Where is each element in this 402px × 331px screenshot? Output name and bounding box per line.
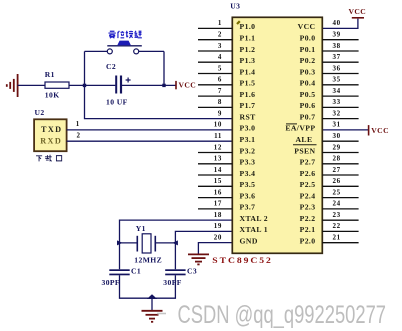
- svg-text:P1.2: P1.2: [240, 45, 256, 54]
- svg-text:XTAL 2: XTAL 2: [240, 214, 269, 223]
- svg-text:U3: U3: [230, 2, 240, 11]
- svg-text:STC89C52: STC89C52: [212, 256, 273, 265]
- node crystal left junction: [117, 240, 123, 245]
- svg-text:P0.2: P0.2: [300, 56, 316, 65]
- U3 pin 14 (P3.4): [198, 166, 255, 178]
- svg-text:VCC: VCC: [298, 22, 316, 31]
- svg-text:30PF: 30PF: [163, 278, 181, 287]
- wire button right vertical: [163, 51, 165, 85]
- U3 pin 8 (P1.7): [198, 98, 255, 110]
- wire ground stem: [151, 298, 153, 310]
- svg-text:13: 13: [214, 155, 222, 163]
- wire RST net to pin 9: [85, 85, 233, 118]
- svg-text:30PF: 30PF: [102, 278, 120, 287]
- U3 pin 20 (GND): [214, 234, 258, 246]
- U3 pin 37 (P0.2): [300, 53, 359, 65]
- svg-text:11: 11: [214, 132, 222, 140]
- svg-text:29: 29: [333, 143, 341, 151]
- svg-text:C2: C2: [106, 62, 116, 71]
- svg-text:P1.7: P1.7: [240, 101, 256, 110]
- svg-text:8: 8: [218, 98, 222, 106]
- svg-text:34: 34: [333, 87, 341, 95]
- U3 pin 39 (P0.0): [300, 31, 359, 43]
- svg-text:32: 32: [333, 109, 341, 117]
- node crystal right junction: [172, 240, 178, 245]
- svg-text:12MHZ: 12MHZ: [134, 256, 162, 265]
- power VCC tick at reset rail: [176, 81, 196, 90]
- svg-text:20: 20: [214, 234, 222, 242]
- svg-text:P3.4: P3.4: [240, 169, 256, 178]
- U3 pin 31 (EA/VPP): [285, 121, 340, 133]
- svg-text:10: 10: [214, 121, 222, 129]
- capacitor C3: [163, 267, 197, 288]
- node B: [162, 84, 165, 87]
- ground at pin 20: [188, 254, 209, 264]
- svg-text:15: 15: [214, 177, 222, 185]
- svg-text:19: 19: [214, 222, 222, 230]
- capacitor C1: [102, 267, 142, 288]
- svg-text:P2.3: P2.3: [300, 203, 316, 212]
- svg-text:35: 35: [333, 76, 341, 84]
- svg-text:28: 28: [333, 155, 341, 163]
- U3 pin 23 (P2.2): [300, 211, 359, 223]
- node A RST junction: [83, 84, 86, 87]
- U3 pin 10 (P3.0): [214, 121, 256, 133]
- svg-text:P3.7: P3.7: [240, 203, 256, 212]
- svg-text:C3: C3: [187, 267, 197, 276]
- svg-text:10K: 10K: [45, 91, 60, 100]
- svg-text:P1.6: P1.6: [240, 90, 256, 99]
- svg-text:18: 18: [214, 211, 222, 219]
- svg-text:P0.1: P0.1: [300, 45, 316, 54]
- power VCC at pin 31: [322, 125, 389, 135]
- svg-text:23: 23: [333, 211, 341, 219]
- svg-text:12: 12: [214, 143, 222, 151]
- svg-text:EA/VPP: EA/VPP: [285, 124, 315, 133]
- svg-text:P3.6: P3.6: [240, 191, 256, 200]
- U3 pin 16 (P3.6): [198, 188, 255, 200]
- svg-text:P0.5: P0.5: [300, 90, 316, 99]
- U3 pin 28 (P2.7): [300, 155, 359, 167]
- svg-text:33: 33: [333, 98, 341, 106]
- U3 pin 38 (P0.1): [300, 42, 359, 54]
- svg-text:27: 27: [333, 166, 341, 174]
- capacitor C2: [106, 62, 131, 107]
- U3 pin 27 (P2.6): [300, 166, 359, 178]
- U3 pin 33 (P0.6): [300, 98, 359, 110]
- resistor R1: [45, 70, 69, 100]
- svg-text:40: 40: [333, 19, 341, 27]
- svg-text:1: 1: [218, 19, 222, 27]
- U3 pin 22 (P2.1): [300, 222, 359, 234]
- U3 pin 40 (VCC): [298, 19, 341, 31]
- svg-text:PSEN: PSEN: [294, 146, 315, 155]
- svg-text:31: 31: [333, 121, 341, 129]
- U3 pin 36 (P0.3): [300, 64, 359, 76]
- svg-text:ALE: ALE: [295, 135, 312, 144]
- U3 pin 30 (ALE): [295, 132, 358, 144]
- svg-text:P3.5: P3.5: [240, 180, 256, 189]
- U3 pin 25 (P2.4): [300, 188, 359, 200]
- ground signal ground at crystal: [142, 311, 163, 322]
- svg-text:17: 17: [214, 200, 222, 208]
- svg-text:1: 1: [76, 120, 80, 128]
- wire C1 bottom: [120, 275, 176, 298]
- U3 pin 26 (P2.5): [300, 177, 359, 189]
- svg-text:P2.1: P2.1: [300, 225, 316, 234]
- svg-text:36: 36: [333, 64, 341, 72]
- svg-text:P1.1: P1.1: [240, 34, 256, 43]
- svg-text:37: 37: [333, 53, 341, 61]
- svg-text:22: 22: [333, 222, 341, 230]
- U3 pin 2 (P1.1): [198, 31, 255, 43]
- U3 pin 1 (P1.0): [198, 19, 255, 31]
- ground power-ground at R1: [7, 74, 18, 97]
- svg-text:30: 30: [333, 132, 341, 140]
- U3 pin 6 (P1.5): [198, 76, 255, 88]
- watermark CSDN: [157, 301, 386, 329]
- svg-text:3: 3: [218, 42, 222, 50]
- svg-text:U2: U2: [35, 108, 45, 117]
- svg-text:39: 39: [333, 31, 341, 39]
- svg-text:P3.2: P3.2: [240, 146, 256, 155]
- U3 pin 21 (P2.0): [300, 234, 359, 246]
- U3 pin 4 (P1.3): [198, 53, 255, 65]
- U3 pin 19 (XTAL1): [214, 222, 268, 234]
- wire R1 to node A: [69, 84, 115, 86]
- svg-text:P1.4: P1.4: [240, 67, 256, 76]
- wire ground to R1: [18, 84, 45, 86]
- svg-text:P2.4: P2.4: [300, 191, 316, 200]
- svg-text:RXD: RXD: [40, 136, 62, 145]
- svg-text:C1: C1: [131, 267, 141, 276]
- U3 pin 18 (XTAL2): [214, 211, 268, 223]
- svg-text:7: 7: [218, 87, 222, 95]
- U3 pin 9 (RST): [218, 109, 256, 121]
- svg-text:P0.7: P0.7: [300, 112, 316, 121]
- label 复位按键 reset button text: [108, 31, 141, 38]
- svg-text:RST: RST: [240, 112, 257, 121]
- wire C2 to node B: [122, 84, 176, 86]
- svg-text:P2.6: P2.6: [300, 169, 316, 178]
- svg-text:P0.6: P0.6: [300, 101, 316, 110]
- svg-text:14: 14: [214, 166, 222, 174]
- U3 pin 13 (P3.3): [198, 155, 255, 167]
- svg-text:16: 16: [214, 188, 222, 196]
- svg-text:P1.3: P1.3: [240, 56, 256, 65]
- svg-text:VCC: VCC: [371, 126, 389, 135]
- op IC U3 body: [212, 2, 322, 266]
- U3 pin 32 (P0.7): [300, 109, 359, 121]
- svg-text:P2.2: P2.2: [300, 214, 316, 223]
- svg-text:P0.3: P0.3: [300, 67, 316, 76]
- svg-text:5: 5: [218, 64, 222, 72]
- push button S1 reset: [85, 41, 165, 54]
- svg-text:P2.5: P2.5: [300, 180, 316, 189]
- svg-text:P0.4: P0.4: [300, 79, 316, 88]
- power VCC at pin 40: [322, 7, 366, 28]
- svg-text:21: 21: [333, 234, 341, 242]
- svg-text:2: 2: [218, 31, 222, 39]
- U3 pin 24 (P2.3): [300, 200, 359, 212]
- U3 pin 35 (P0.4): [300, 76, 359, 88]
- svg-text:TXD: TXD: [41, 125, 63, 134]
- wire GND pin20 to ground: [198, 243, 232, 254]
- wire button left vertical: [84, 51, 86, 85]
- wire U2 pin 2 to U3 pin 11: [67, 131, 233, 141]
- node bottom rail junction: [147, 294, 157, 299]
- svg-text:CSDN @qq_q992250277: CSDN @qq_q992250277: [178, 301, 387, 329]
- U3 pin 7 (P1.6): [198, 87, 255, 99]
- svg-text:VCC: VCC: [179, 81, 197, 90]
- svg-text:P1.0: P1.0: [240, 22, 256, 31]
- svg-text:P3.0: P3.0: [240, 124, 256, 133]
- svg-text:9: 9: [218, 109, 222, 117]
- U3 pin 3 (P1.2): [198, 42, 255, 54]
- svg-text:4: 4: [218, 53, 222, 61]
- U3 pin 12 (P3.2): [198, 143, 255, 155]
- U3 pin 34 (P0.5): [300, 87, 359, 99]
- svg-text:R1: R1: [45, 70, 55, 79]
- svg-text:P1.5: P1.5: [240, 79, 256, 88]
- svg-text:P3.1: P3.1: [240, 135, 256, 144]
- svg-text:25: 25: [333, 188, 341, 196]
- wire XTAL1 pin19: [175, 231, 232, 269]
- U3 pin 15 (P3.5): [198, 177, 255, 189]
- label 下载口 download port text: [36, 155, 62, 162]
- svg-text:38: 38: [333, 42, 341, 50]
- svg-text:XTAL 1: XTAL 1: [240, 225, 269, 234]
- svg-text:26: 26: [333, 177, 341, 185]
- svg-text:P2.0: P2.0: [300, 237, 316, 246]
- svg-text:Y1: Y1: [136, 224, 146, 233]
- svg-text:P0.0: P0.0: [300, 34, 316, 43]
- U3 pin 29 (PSEN): [293, 143, 359, 155]
- svg-text:GND: GND: [240, 237, 258, 246]
- connector U2: [34, 108, 67, 151]
- svg-text:6: 6: [218, 76, 222, 84]
- wire U2 pin 1 to U3 pin 10: [67, 120, 233, 130]
- crystal circuit: wire XTAL2 pin18: [120, 220, 233, 269]
- crystal Y1: [120, 224, 176, 264]
- svg-text:2: 2: [77, 131, 81, 139]
- svg-text:P2.7: P2.7: [300, 158, 316, 167]
- svg-text:10 UF: 10 UF: [106, 98, 128, 107]
- svg-text:P3.3: P3.3: [240, 158, 256, 167]
- svg-text:VCC: VCC: [349, 7, 367, 16]
- U3 pin 11 (P3.1): [214, 132, 255, 144]
- U3 pin 5 (P1.4): [198, 64, 255, 76]
- svg-text:24: 24: [333, 200, 341, 208]
- U3 pin 17 (P3.7): [198, 200, 255, 212]
